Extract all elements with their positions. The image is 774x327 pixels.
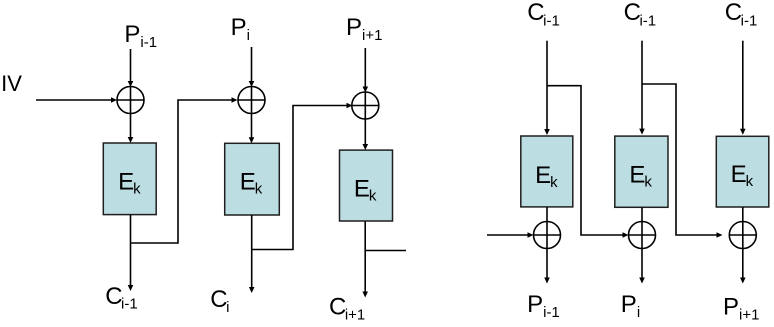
block D1 (decrypt) bbox=[521, 136, 573, 207]
wire D1 to XOR r1 bbox=[546, 207, 548, 222]
svg-text:Pi: Pi bbox=[621, 291, 640, 321]
svg-text:Pi-1: Pi-1 bbox=[124, 21, 157, 51]
svg-text:k: k bbox=[550, 174, 558, 191]
svg-text:k: k bbox=[133, 181, 141, 198]
wire D2 to XOR r2 bbox=[641, 207, 643, 221]
svg-text:IV: IV bbox=[1, 71, 22, 96]
block D2 (decrypt) bbox=[615, 136, 668, 207]
svg-text:Ci-1: Ci-1 bbox=[105, 283, 138, 313]
xor gate X1 bbox=[117, 87, 144, 114]
svg-text:k: k bbox=[255, 181, 263, 198]
wire E3 output to C_i+1 bbox=[362, 221, 368, 297]
svg-text:k: k bbox=[746, 173, 754, 190]
wire C col1 down to D1 bbox=[544, 41, 550, 135]
svg-text:Pi+1: Pi+1 bbox=[346, 14, 382, 44]
xor gate X3 bbox=[352, 92, 379, 119]
wire XOR2 to E2 bbox=[249, 114, 255, 144]
wire E1 output to C_i-1 bbox=[128, 215, 134, 291]
svg-text:E: E bbox=[731, 161, 747, 188]
wire P_i-1 to XOR1 bbox=[128, 49, 134, 87]
xor gate XR1 bbox=[534, 222, 561, 249]
svg-text:Ci+1: Ci+1 bbox=[329, 294, 365, 324]
svg-text:E: E bbox=[240, 169, 256, 196]
svg-text:E: E bbox=[535, 162, 551, 189]
block D3 (decrypt) bbox=[716, 136, 769, 207]
wire feedback branch E1 to XOR2 bbox=[131, 97, 238, 243]
svg-text:E: E bbox=[629, 162, 645, 189]
xor gate XR3 bbox=[729, 222, 756, 249]
wire XOR3 to E3 bbox=[363, 119, 369, 150]
wire input arrow to XOR r1 bbox=[487, 232, 534, 238]
svg-text:Ci-1: Ci-1 bbox=[624, 0, 657, 29]
wire P_i to XOR2 bbox=[249, 47, 255, 87]
wire P_i+1 to XOR3 bbox=[363, 48, 369, 93]
svg-text:E: E bbox=[354, 175, 370, 202]
wire feedback branch E2 to XOR3 bbox=[252, 103, 353, 250]
wire IV to XOR1 bbox=[36, 97, 117, 103]
xor gate X2 bbox=[238, 87, 265, 114]
block E3 (encrypt) bbox=[340, 150, 393, 221]
wire XOR1 to E1 bbox=[128, 114, 134, 144]
wire branch col2 to XOR r3 bbox=[642, 84, 723, 238]
svg-text:Ci-1: Ci-1 bbox=[527, 0, 560, 29]
svg-text:Pi: Pi bbox=[231, 14, 250, 44]
wire C col2 down to D2 bbox=[639, 41, 645, 135]
wire D3 to XOR r3 bbox=[742, 207, 744, 222]
svg-text:Ci-1: Ci-1 bbox=[725, 0, 758, 29]
svg-text:Pi-1: Pi-1 bbox=[527, 291, 560, 321]
wire E2 output to C_i bbox=[249, 215, 255, 293]
svg-text:E: E bbox=[118, 169, 134, 196]
xor gate XR2 bbox=[629, 222, 656, 249]
svg-text:Ci: Ci bbox=[210, 286, 229, 316]
block E2 (encrypt) bbox=[225, 143, 280, 215]
svg-text:k: k bbox=[369, 187, 377, 204]
block E1 (encrypt) bbox=[103, 143, 156, 215]
wire XOR r1 output to P_i-1 bbox=[544, 249, 550, 284]
wire XOR r2 output to P_i bbox=[639, 249, 645, 284]
wire feedback stub from E3 bbox=[365, 250, 406, 252]
wire XOR r3 output to P_i+1 bbox=[740, 249, 746, 284]
svg-text:k: k bbox=[644, 174, 652, 191]
svg-text:Pi+1: Pi+1 bbox=[723, 293, 759, 323]
wire C col3 down to D3 bbox=[740, 41, 746, 135]
wire branch col1 to XOR r2 bbox=[547, 86, 629, 238]
